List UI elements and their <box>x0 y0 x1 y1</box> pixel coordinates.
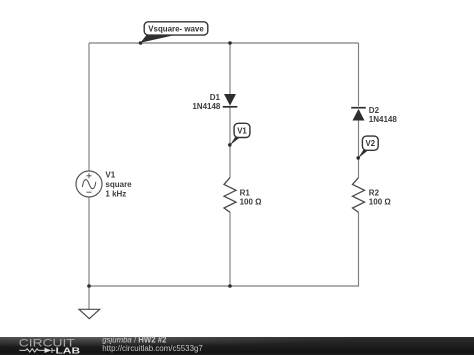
svg-text:R2: R2 <box>369 188 380 197</box>
svg-text:100 Ω: 100 Ω <box>369 198 392 207</box>
svg-text:V1: V1 <box>237 126 247 135</box>
svg-text:100 Ω: 100 Ω <box>240 198 263 207</box>
svg-text:square: square <box>105 180 132 189</box>
svg-text:1 kHz: 1 kHz <box>105 189 126 198</box>
svg-text:Vsquare- wave: Vsquare- wave <box>148 24 204 33</box>
svg-text:1N4148: 1N4148 <box>369 115 398 124</box>
svg-text:D1: D1 <box>210 93 221 102</box>
svg-text:LAB: LAB <box>56 347 81 355</box>
svg-text:D2: D2 <box>369 106 380 115</box>
svg-text:R1: R1 <box>240 188 251 197</box>
svg-text:V1: V1 <box>105 170 115 179</box>
svg-text:1N4148: 1N4148 <box>192 102 221 111</box>
svg-text:http://circuitlab.com/c5533g7: http://circuitlab.com/c5533g7 <box>102 344 202 353</box>
svg-text:V2: V2 <box>366 139 376 148</box>
